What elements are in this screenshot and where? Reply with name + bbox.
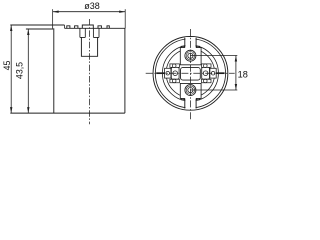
top view ring circle R24 <box>166 49 215 98</box>
flange bump 3 <box>98 26 101 29</box>
platform line across top <box>65 27 126 29</box>
flange top line (also ext line for 45) <box>10 24 64 26</box>
collar S <box>180 83 201 98</box>
underside ext line for 43,5 <box>26 28 53 30</box>
dimension line ø38 <box>53 9 126 28</box>
horizontal centerline top view <box>146 72 235 74</box>
flange center block <box>82 25 93 28</box>
W terminal rect <box>171 67 179 79</box>
neck S <box>185 98 196 109</box>
body right edge <box>124 28 126 113</box>
svg-text:18: 18 <box>238 69 248 79</box>
W upper nub <box>170 64 180 67</box>
E terminal rect <box>202 67 210 79</box>
dimension line 45 <box>10 25 12 113</box>
body left edge <box>53 28 55 113</box>
rim crossing solid W <box>156 72 164 74</box>
rim crossing solid E <box>216 72 224 74</box>
contact N circles <box>185 50 196 61</box>
collar S tabs <box>181 98 199 99</box>
W terminal bracket <box>165 68 171 78</box>
E upper nub <box>202 64 212 67</box>
svg-text:43,5: 43,5 <box>14 62 24 79</box>
collar N tabs <box>181 46 199 47</box>
collar N <box>180 48 201 65</box>
side view outline <box>10 25 125 113</box>
flange bump 1 <box>67 26 70 29</box>
flange bump 4 <box>107 26 109 29</box>
center square <box>181 67 201 80</box>
vertical centerline top view <box>189 29 191 121</box>
flange left edge upper <box>52 25 54 28</box>
top view ring circle R28 <box>162 45 218 101</box>
dimension 18 ext lines <box>190 55 237 57</box>
step down to platform <box>64 25 66 28</box>
neck N <box>185 37 196 48</box>
top view inner rim circle <box>155 39 225 108</box>
body bottom (extends left as ext line) <box>10 112 125 114</box>
contact S circles <box>185 85 196 96</box>
starter well upper slots <box>80 28 85 37</box>
top view outer circle <box>153 37 228 111</box>
svg-text:ø38: ø38 <box>84 1 100 11</box>
svg-text:45: 45 <box>2 61 12 71</box>
E terminal bracket <box>210 68 216 78</box>
dimension line 18 <box>235 56 237 91</box>
E lower nub <box>202 79 212 82</box>
starter well lower cavity <box>81 37 97 56</box>
W lower nub <box>170 79 180 82</box>
centerline side view <box>88 19 90 124</box>
dimension line 43,5 <box>27 29 29 113</box>
flange bump 2 <box>75 26 78 29</box>
